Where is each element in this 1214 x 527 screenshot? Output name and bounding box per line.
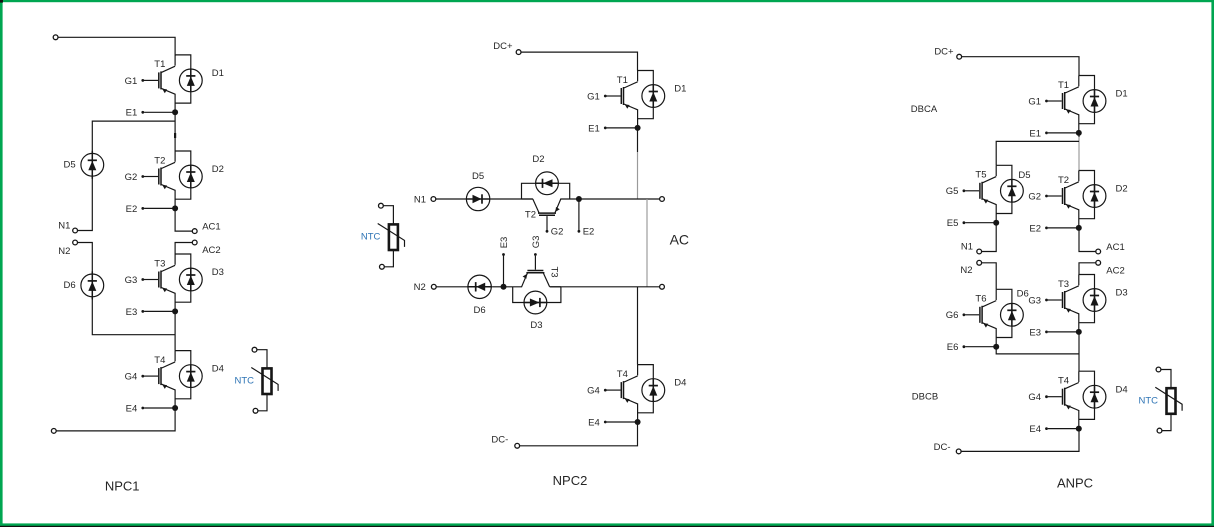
svg-text:NTC: NTC	[1138, 395, 1158, 406]
wire N2 to T6 (ANPC)	[982, 263, 997, 290]
pin E3 (NPC1)	[126, 307, 173, 318]
svg-text:G6: G6	[946, 310, 959, 321]
pin G2 (NPC2)	[546, 227, 564, 238]
pin E2 (NPC1)	[126, 204, 173, 215]
node E3 junction (NPC2)	[501, 284, 507, 290]
svg-text:ANPC: ANPC	[1057, 476, 1093, 491]
svg-text:E3: E3	[126, 307, 138, 318]
svg-text:T4: T4	[617, 369, 628, 380]
svg-text:N1: N1	[961, 242, 973, 253]
thermistor NTC (NPC2)	[361, 203, 405, 269]
svg-text:G3: G3	[531, 236, 542, 249]
diode D4 (NPC2)	[638, 365, 687, 413]
svg-text:T3: T3	[1058, 279, 1069, 290]
svg-text:E1: E1	[588, 123, 600, 134]
svg-text:D2: D2	[1116, 184, 1128, 195]
terminal DC+ (ANPC)	[957, 54, 962, 59]
pin E6 (ANPC)	[947, 342, 994, 353]
diode D2 (ANPC)	[1079, 171, 1128, 219]
pin E2 (NPC2)	[578, 200, 595, 237]
svg-text:T6: T6	[975, 294, 986, 305]
svg-text:D3: D3	[212, 267, 224, 278]
svg-text:T2: T2	[525, 210, 536, 221]
pin E1 (ANPC)	[1029, 128, 1076, 139]
terminal AC2 (ANPC)	[1096, 260, 1101, 265]
wire E3 to T4 (NPC1)	[174, 312, 176, 351]
pin E1 (NPC1)	[126, 108, 173, 119]
svg-text:NTC: NTC	[234, 376, 254, 387]
pin G4 (NPC2)	[587, 386, 607, 397]
wire E4 to DC- (ANPC)	[961, 429, 1079, 452]
node E1 junction (NPC2)	[635, 125, 641, 131]
node E3 junction (NPC1)	[172, 308, 178, 314]
svg-text:D4: D4	[674, 378, 686, 389]
svg-text:T2: T2	[154, 155, 165, 166]
wire E2 to AC1 (NPC2)	[579, 198, 660, 200]
wire AC2 row to T4 (NPC2)	[637, 287, 639, 365]
svg-text:AC: AC	[670, 232, 689, 248]
wire E2 to AC1 (NPC1)	[175, 208, 192, 231]
wire AC1 to AC2 link (NPC2)	[646, 199, 648, 287]
transistor T6 (ANPC)	[965, 289, 996, 346]
transistor T4 (ANPC)	[1048, 371, 1079, 428]
node E3 junction (ANPC)	[1076, 329, 1082, 335]
terminal AC2 (NPC1)	[192, 240, 197, 245]
transistor T3 (NPC1)	[144, 254, 175, 311]
svg-text:E2: E2	[583, 227, 595, 238]
wire D6 to spine (NPC1)	[92, 297, 175, 335]
svg-text:G2: G2	[551, 227, 564, 238]
diode D1 (ANPC)	[1079, 76, 1128, 124]
svg-text:E3: E3	[1029, 327, 1041, 338]
svg-text:NPC1: NPC1	[105, 479, 140, 494]
svg-text:G1: G1	[125, 76, 138, 87]
diode D4 (ANPC)	[1079, 371, 1128, 419]
svg-text:D3: D3	[1116, 288, 1128, 299]
transistor T3 (ANPC)	[1048, 275, 1079, 332]
svg-text:D5: D5	[64, 160, 76, 171]
wire DC+ rail (NPC2)	[521, 52, 638, 70]
wire E2 to AC1 (ANPC)	[1079, 228, 1096, 252]
wire E1 to D5 branch (NPC1)	[92, 121, 175, 153]
transistor T2 (NPC2)	[522, 199, 579, 230]
wire N2 to D6 (NPC1)	[78, 243, 93, 275]
wire T3 to AC2 (NPC2)	[550, 286, 660, 288]
terminal N1 (NPC1)	[73, 228, 78, 233]
diode D1 (NPC1)	[175, 55, 224, 103]
node E5 junction (ANPC)	[993, 220, 999, 226]
diode D2 (NPC2)	[522, 172, 570, 199]
diode D6 (ANPC)	[996, 289, 1029, 338]
node E2 junction (ANPC)	[1076, 225, 1082, 231]
svg-text:N2: N2	[58, 246, 70, 257]
svg-text:NTC: NTC	[361, 232, 381, 243]
node E1 junction (NPC1)	[172, 109, 178, 115]
svg-text:DC-: DC-	[491, 435, 508, 446]
wire E4 to DC- terminal (NPC1)	[56, 408, 175, 431]
svg-text:D6: D6	[474, 305, 486, 316]
pin G2 (ANPC)	[1028, 191, 1048, 202]
svg-text:T4: T4	[1058, 376, 1069, 387]
svg-text:N2: N2	[414, 282, 426, 293]
transistor T2 (ANPC)	[1048, 171, 1079, 228]
svg-text:D1: D1	[1116, 89, 1128, 100]
node E4 junction (NPC1)	[172, 405, 178, 411]
transistor T1 (ANPC)	[1048, 76, 1079, 133]
node E2 junction (NPC1)	[172, 205, 178, 211]
svg-text:D1: D1	[674, 84, 686, 95]
diode D3 (NPC2)	[513, 287, 561, 314]
pin G1 (ANPC)	[1028, 96, 1048, 107]
diode D1 (NPC2)	[638, 71, 687, 119]
wire E1 to AC row1 (NPC2)	[637, 128, 639, 152]
pin G3 (ANPC)	[1028, 295, 1048, 306]
svg-text:T4: T4	[154, 355, 165, 366]
node E4 junction (ANPC)	[1076, 426, 1082, 432]
svg-text:G4: G4	[125, 372, 138, 383]
pin G5 (ANPC)	[946, 186, 966, 197]
wire tick E1 (NPC1)	[174, 133, 176, 138]
svg-text:E4: E4	[1029, 424, 1041, 435]
terminal AC2 (NPC2)	[660, 284, 665, 289]
pin G4 (ANPC)	[1028, 392, 1048, 403]
pin E4 (NPC2)	[588, 417, 635, 428]
svg-text:T1: T1	[617, 75, 628, 86]
svg-text:D2: D2	[532, 154, 544, 165]
pin E4 (NPC1)	[126, 403, 173, 414]
wire N1 to D5 (NPC2)	[436, 198, 466, 200]
pin G3 (NPC2)	[531, 236, 542, 256]
node E6 junction (ANPC)	[993, 344, 999, 350]
pin E5 (ANPC)	[947, 218, 994, 229]
svg-text:D5: D5	[1018, 170, 1030, 181]
svg-text:AC1: AC1	[202, 221, 220, 232]
transistor T4 (NPC1)	[144, 351, 175, 408]
terminal DC- (NPC2)	[515, 443, 520, 448]
wire DC+ rail (ANPC)	[962, 57, 1080, 76]
diode D2 (NPC1)	[175, 151, 224, 199]
wire AC2 to T3 (NPC1)	[175, 243, 192, 255]
svg-text:E6: E6	[947, 342, 959, 353]
diode D3 (NPC1)	[175, 254, 224, 302]
diode D6 (NPC1)	[64, 271, 104, 299]
wire E1 to T2 (ANPC)	[1078, 133, 1080, 137]
svg-text:G3: G3	[125, 275, 138, 286]
svg-text:E2: E2	[126, 204, 138, 215]
transistor T1 (NPC1)	[144, 55, 175, 112]
terminal N1 (NPC2)	[431, 197, 436, 202]
terminal N2 (ANPC)	[977, 260, 982, 265]
terminal AC1 (NPC1)	[192, 229, 197, 234]
wire N2 to D6 (NPC2)	[436, 286, 467, 288]
terminal DC+ (NPC2)	[516, 50, 521, 55]
svg-text:E4: E4	[126, 403, 138, 414]
svg-text:AC2: AC2	[202, 245, 220, 256]
diode D6 (NPC2)	[467, 275, 492, 316]
thermistor NTC (ANPC)	[1138, 367, 1182, 433]
wire E4 to DC- (NPC2)	[520, 422, 638, 446]
pin G1 (NPC2)	[587, 91, 607, 102]
wire E5 to N1 (ANPC)	[982, 223, 997, 252]
svg-text:D6: D6	[64, 280, 76, 291]
svg-text:D4: D4	[1116, 384, 1128, 395]
svg-text:NPC2: NPC2	[553, 473, 588, 488]
transistor T4 (NPC2)	[607, 365, 638, 422]
svg-text:AC2: AC2	[1106, 265, 1124, 276]
diode D5 (NPC2)	[466, 171, 491, 211]
svg-text:T3: T3	[154, 258, 165, 269]
svg-text:D5: D5	[472, 171, 484, 182]
svg-text:G3: G3	[1028, 295, 1041, 306]
wire D5 to T2 (NPC2)	[491, 198, 533, 200]
svg-text:N1: N1	[58, 220, 70, 231]
node E2 junction (NPC2)	[576, 196, 582, 202]
diode D5 (ANPC)	[996, 165, 1030, 213]
svg-text:E5: E5	[947, 218, 959, 229]
terminal N2 (NPC1)	[73, 240, 78, 245]
wire DC+ rail (NPC1)	[58, 37, 175, 56]
svg-text:N1: N1	[414, 194, 426, 205]
svg-text:N2: N2	[960, 265, 972, 276]
wire D5 to N1 (NPC1)	[78, 177, 93, 231]
pin G3 (NPC1)	[125, 275, 145, 286]
pin E3 (NPC2)	[499, 237, 510, 286]
diode D5 (NPC1)	[64, 151, 104, 179]
diode D4 (NPC1)	[175, 351, 224, 399]
svg-text:G5: G5	[946, 186, 959, 197]
svg-text:G2: G2	[125, 172, 138, 183]
svg-text:DBCB: DBCB	[912, 391, 938, 402]
svg-text:E3: E3	[499, 237, 510, 249]
svg-text:T1: T1	[1058, 80, 1069, 91]
terminal N1 (ANPC)	[977, 249, 982, 254]
wire D6 to E3 node (NPC2)	[492, 286, 503, 288]
wire E1 to T5 branch (ANPC)	[996, 141, 1079, 165]
wire E1 to T2 (NPC1)	[174, 112, 176, 151]
svg-text:T5: T5	[975, 170, 986, 181]
diode D3 (ANPC)	[1079, 275, 1128, 323]
svg-text:DC+: DC+	[934, 47, 954, 58]
svg-text:E4: E4	[588, 417, 600, 428]
pin G1 (NPC1)	[125, 76, 145, 87]
svg-text:DC-: DC-	[934, 442, 951, 453]
svg-text:D2: D2	[212, 164, 224, 175]
svg-text:E1: E1	[126, 108, 138, 119]
node E1 junction (ANPC)	[1076, 130, 1082, 136]
node E4 junction (NPC2)	[635, 419, 641, 425]
svg-text:D1: D1	[212, 68, 224, 79]
svg-text:D4: D4	[212, 364, 224, 375]
terminal DC- (ANPC)	[956, 449, 961, 454]
svg-text:G4: G4	[1028, 392, 1041, 403]
transistor T3 (NPC2)	[504, 256, 561, 287]
pin G2 (NPC1)	[125, 172, 145, 183]
terminal AC1 (ANPC)	[1096, 249, 1101, 254]
terminal DC- (NPC1)	[51, 429, 56, 434]
pin G6 (ANPC)	[946, 310, 966, 321]
svg-text:G2: G2	[1028, 191, 1041, 202]
svg-text:G1: G1	[1028, 96, 1041, 107]
wire AC2 to T3 (ANPC)	[1079, 263, 1096, 275]
transistor T1 (NPC2)	[607, 71, 638, 128]
svg-text:G4: G4	[587, 386, 600, 397]
svg-text:E1: E1	[1029, 128, 1041, 139]
svg-text:T1: T1	[154, 59, 165, 70]
wire E6 to spine (ANPC)	[996, 347, 1079, 354]
svg-text:DC+: DC+	[493, 41, 513, 52]
terminal N2 (NPC2)	[431, 284, 436, 289]
wire E3 to T4 (ANPC)	[1078, 332, 1080, 371]
pin E2 (ANPC)	[1029, 223, 1076, 234]
svg-text:E2: E2	[1029, 223, 1041, 234]
svg-text:DBCA: DBCA	[911, 104, 938, 115]
svg-text:G1: G1	[587, 91, 600, 102]
svg-text:T3: T3	[549, 267, 560, 278]
pin E1 (NPC2)	[588, 123, 635, 134]
transistor T5 (ANPC)	[965, 165, 996, 222]
svg-text:AC1: AC1	[1106, 242, 1124, 253]
terminal DC+ (NPC1)	[53, 35, 58, 40]
pin E4 (ANPC)	[1029, 424, 1076, 435]
terminal AC1 (NPC2)	[660, 197, 665, 202]
svg-text:D6: D6	[1017, 289, 1029, 300]
pin G4 (NPC1)	[125, 372, 145, 383]
pin E3 (ANPC)	[1029, 327, 1076, 338]
thermistor NTC (NPC1)	[234, 347, 278, 413]
svg-text:D3: D3	[530, 320, 542, 331]
transistor T2 (NPC1)	[144, 151, 175, 208]
svg-text:T2: T2	[1058, 175, 1069, 186]
